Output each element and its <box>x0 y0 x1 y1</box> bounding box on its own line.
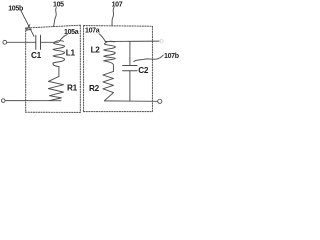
svg-text:C2: C2 <box>138 66 149 75</box>
svg-text:105a: 105a <box>64 29 79 36</box>
svg-text:L2: L2 <box>91 46 101 55</box>
svg-text:107a: 107a <box>85 28 100 35</box>
svg-text:107b: 107b <box>164 53 179 60</box>
top wire (right section) <box>105 40 160 42</box>
svg-text:105b: 105b <box>8 6 23 13</box>
resistor R1 <box>48 76 63 100</box>
svg-text:107: 107 <box>112 1 123 8</box>
leader line for 107b <box>134 55 163 61</box>
inductor L1 <box>53 41 65 67</box>
leader line for 107 <box>112 7 114 25</box>
capacitor C1 <box>36 35 41 49</box>
inductor L2 <box>104 41 116 71</box>
leader arrow for 105b <box>21 11 34 37</box>
svg-text:105: 105 <box>53 2 64 9</box>
terminal (bottom-left) <box>1 99 5 103</box>
terminal (top-right, faint) <box>160 39 164 43</box>
wire C1 to node <box>41 41 59 43</box>
leader line for 107a <box>99 34 105 42</box>
svg-text:R1: R1 <box>67 84 78 93</box>
bottom wire (right section) <box>104 100 157 102</box>
capacitor C2 <box>123 66 138 71</box>
svg-text:C1: C1 <box>31 51 42 60</box>
wire C2 branch vertical (top) <box>129 41 131 65</box>
wire input to C1 <box>7 41 36 43</box>
dashed box 105 (left section boundary) <box>26 25 81 112</box>
wire L1 to R1 <box>58 67 60 77</box>
leader line for 105a <box>59 35 67 42</box>
terminal (bottom-right) <box>158 99 162 103</box>
svg-text:L1: L1 <box>66 49 76 58</box>
terminal (input, top-left) <box>3 40 7 44</box>
svg-text:R2: R2 <box>89 84 100 93</box>
leader line for 105 <box>54 8 57 27</box>
dashed box 107 (right section boundary) <box>84 26 153 112</box>
wire C2 branch vertical (bottom) <box>129 71 131 102</box>
resistor R2 <box>103 71 114 100</box>
bottom wire (left section) <box>5 100 61 102</box>
